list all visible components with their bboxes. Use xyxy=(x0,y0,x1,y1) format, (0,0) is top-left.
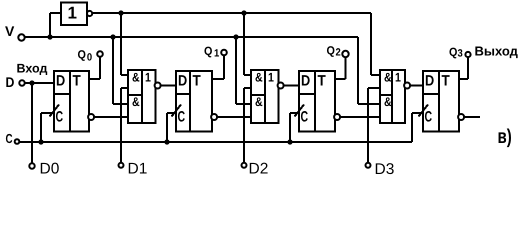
svg-text:Q: Q xyxy=(449,45,457,59)
wire D1 riser xyxy=(120,88,122,163)
flip-flop DD2 C input wire xyxy=(167,112,176,114)
wire notQ0 to gate xyxy=(94,116,128,118)
svg-text:D: D xyxy=(178,72,187,89)
flip-flop DD2 box xyxy=(176,71,212,132)
wire D0 riser xyxy=(31,83,33,165)
AND-OR-NOT gate 2 cell divider xyxy=(251,94,265,96)
svg-text:D1: D1 xyxy=(128,161,148,178)
svg-text:D: D xyxy=(6,74,15,90)
flip-flop DD1 clock edge slash xyxy=(50,105,60,117)
terminal V xyxy=(18,34,24,40)
wire Q2 output xyxy=(335,78,346,80)
junction C bus tap 1 xyxy=(164,139,169,144)
flip-flop DD2 C tap riser xyxy=(166,113,168,142)
junction V bus stage 2 xyxy=(233,34,238,39)
svg-text:D3: D3 xyxy=(375,161,395,177)
flip-flop DD1 D-cell divider xyxy=(54,93,70,95)
wire inverter input riser xyxy=(49,13,51,37)
svg-text:&: & xyxy=(255,95,263,109)
svg-text:V: V xyxy=(5,23,15,39)
flip-flop DD2 D-cell divider xyxy=(176,93,190,95)
svg-text:T: T xyxy=(318,72,326,89)
flip-flop DD4 notQ bubble xyxy=(458,114,464,120)
flip-flop DD4 box xyxy=(423,71,459,132)
wire C bus xyxy=(19,141,412,143)
flip-flop DD3 D-cell divider xyxy=(299,93,315,95)
wire Q3 output xyxy=(459,78,468,80)
terminal D1 xyxy=(119,163,124,168)
svg-text:Q: Q xyxy=(78,48,86,62)
svg-text:&: & xyxy=(384,95,392,109)
svg-text:&: & xyxy=(384,70,392,84)
wire Q0 stub xyxy=(99,54,101,79)
flip-flop DD1 notQ bubble xyxy=(88,114,94,120)
svg-text:&: & xyxy=(132,95,140,109)
flip-flop DD3 C input wire xyxy=(290,112,299,114)
AND-OR-NOT gate 3 divider xyxy=(391,70,393,123)
junction NOT-V bus stage 1 xyxy=(118,10,123,15)
svg-text:&: & xyxy=(255,70,263,84)
svg-text:C: C xyxy=(6,131,14,146)
wire D3 riser xyxy=(367,88,369,163)
wire gate 1 output to D input xyxy=(161,85,177,87)
svg-text:Q: Q xyxy=(327,43,335,57)
AND-OR-NOT gate 1 output bubble xyxy=(155,83,161,89)
svg-text:Вход: Вход xyxy=(17,62,48,76)
wire V drop stage 1 xyxy=(112,37,114,104)
svg-text:T: T xyxy=(442,72,450,89)
flip-flop DD3 divider xyxy=(314,71,316,132)
terminal Q3 xyxy=(465,52,470,57)
svg-text:D0: D0 xyxy=(40,161,60,178)
wire D2 riser xyxy=(243,88,245,163)
AND-OR-NOT gate 1 box xyxy=(128,70,156,123)
flip-flop DD1 divider xyxy=(69,71,71,132)
flip-flop DD3 C tap riser xyxy=(289,113,291,142)
svg-text:D: D xyxy=(301,72,310,89)
wire output notQ3 xyxy=(464,116,480,118)
svg-text:C: C xyxy=(56,109,64,126)
wire Q1 stub xyxy=(223,53,225,80)
svg-text:3: 3 xyxy=(458,48,463,60)
wire NOT-V drop stage 3 xyxy=(370,13,372,75)
junction C bus tap 2 xyxy=(287,139,292,144)
terminal Q2 xyxy=(342,51,348,57)
terminal D0 xyxy=(29,163,34,168)
svg-text:C: C xyxy=(301,109,309,126)
wire NOT-V bus xyxy=(93,12,371,14)
flip-flop DD2 notQ bubble xyxy=(211,114,217,120)
wire V drop stage 2 xyxy=(235,37,237,104)
terminal C xyxy=(15,139,20,144)
svg-text:&: & xyxy=(132,70,140,84)
flip-flop DD4 clock edge slash xyxy=(419,105,429,117)
AND-OR-NOT gate 2 output bubble xyxy=(278,83,284,89)
flip-flop DD1 box xyxy=(54,71,89,132)
flip-flop DD4 divider xyxy=(438,71,440,132)
svg-text:1: 1 xyxy=(268,70,274,84)
flip-flop DD4 D-cell divider xyxy=(423,93,439,95)
wire NOT-V drop stage 2 xyxy=(243,13,245,75)
flip-flop DD1 C tap riser xyxy=(40,113,42,142)
svg-text:2: 2 xyxy=(336,47,341,59)
AND-OR-NOT gate 2 box xyxy=(251,70,279,123)
junction V bus stage 1 xyxy=(110,34,115,39)
svg-text:D: D xyxy=(425,72,434,89)
wire Q1 output xyxy=(212,78,224,80)
svg-text:Q: Q xyxy=(204,44,212,58)
AND-OR-NOT gate 2 divider xyxy=(264,70,266,123)
wire NOT-V drop stage 1 xyxy=(120,13,122,75)
wire D input xyxy=(25,82,54,84)
flip-flop DD1 C input wire xyxy=(41,112,54,114)
flip-flop DD4 C input wire xyxy=(412,112,423,114)
wire inverter input xyxy=(50,12,61,14)
terminal D2 xyxy=(242,163,247,168)
flip-flop DD3 box xyxy=(299,71,335,132)
wire Q0 output xyxy=(89,78,100,80)
wire Q3 stub xyxy=(467,55,469,80)
svg-text:C: C xyxy=(425,109,433,126)
flip-flop DD3 clock edge slash xyxy=(295,105,305,117)
AND-OR-NOT gate 1 cell divider xyxy=(128,94,142,96)
terminal D3 xyxy=(366,163,371,168)
flip-flop DD2 clock edge slash xyxy=(172,105,182,117)
junction NOT-V bus stage 2 xyxy=(241,10,246,15)
junction C bus tap 0 xyxy=(38,139,43,144)
svg-text:1: 1 xyxy=(68,4,77,23)
AND-OR-NOT gate 3 cell divider xyxy=(380,94,392,96)
flip-flop DD3 notQ bubble xyxy=(334,114,340,120)
inverter U1 box xyxy=(61,3,87,26)
AND-OR-NOT gate 1 divider xyxy=(141,70,143,123)
svg-text:1: 1 xyxy=(214,48,219,60)
inverter U1 output bubble xyxy=(87,11,92,16)
terminal Q1 xyxy=(221,50,227,56)
svg-text:1: 1 xyxy=(395,70,401,84)
svg-text:D: D xyxy=(56,72,65,89)
wire Q2 stub xyxy=(345,54,347,79)
flip-flop DD2 divider xyxy=(189,71,191,132)
terminal Q0 xyxy=(97,51,103,57)
terminal D input xyxy=(19,80,24,85)
wire notQ1 to gate xyxy=(217,116,251,118)
AND-OR-NOT gate 3 box xyxy=(380,70,405,123)
svg-text:D2: D2 xyxy=(249,161,269,178)
wire gate 2 output to D input xyxy=(284,85,300,87)
svg-text:C: C xyxy=(178,109,186,126)
wire notQ2 to gate xyxy=(340,116,380,118)
junction D/D0 xyxy=(29,80,34,85)
wire V bus xyxy=(24,36,358,38)
svg-text:в): в) xyxy=(498,126,512,148)
wire gate 3 output to D input xyxy=(410,85,423,87)
svg-text:1: 1 xyxy=(145,70,151,84)
svg-text:Выход: Выход xyxy=(475,44,519,59)
svg-text:0: 0 xyxy=(87,51,92,63)
junction V to inverter xyxy=(47,34,52,39)
svg-text:T: T xyxy=(193,72,201,89)
flip-flop DD4 C tap riser xyxy=(411,113,413,142)
svg-text:T: T xyxy=(73,72,81,89)
wire V drop stage 3 xyxy=(357,37,359,104)
AND-OR-NOT gate 3 output bubble xyxy=(404,83,410,89)
